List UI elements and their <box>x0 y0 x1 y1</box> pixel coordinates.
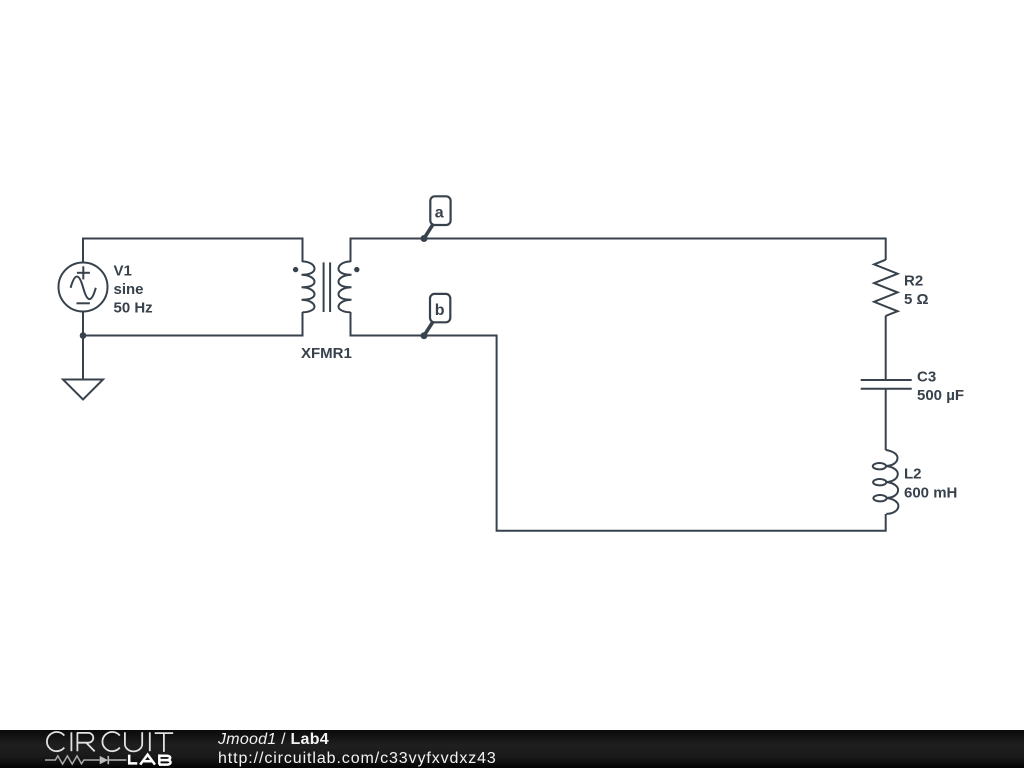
capacitor C3 <box>861 380 912 389</box>
svg-text:sine: sine <box>114 281 144 298</box>
svg-text:V1: V1 <box>114 263 132 280</box>
CircuitLab logo <box>0 730 200 768</box>
logo diode <box>100 756 108 764</box>
svg-text:L2: L2 <box>904 466 922 483</box>
svg-text:5 Ω: 5 Ω <box>904 291 929 308</box>
voltage source V1 <box>59 263 108 312</box>
wire C3 to L2 <box>885 389 887 450</box>
ground <box>63 380 103 400</box>
wire ground stub <box>82 336 84 380</box>
logo LAB text <box>129 754 170 764</box>
logo letter C <box>102 732 119 751</box>
svg-text:C3: C3 <box>917 369 936 386</box>
logo letter I <box>149 732 151 751</box>
svg-text:R2: R2 <box>904 273 923 290</box>
XFMR1 polarity dot right <box>354 267 359 272</box>
svg-text:b: b <box>435 302 445 319</box>
label V1 value <box>114 263 153 317</box>
wire primary bottom run <box>83 312 303 336</box>
wire R2 to C3 <box>885 316 887 380</box>
logo letter C <box>47 732 64 751</box>
inductor L2 <box>873 450 899 514</box>
footer bar <box>0 730 1024 768</box>
svg-text:500 µF: 500 µF <box>917 387 964 404</box>
wire primary top run <box>83 239 303 264</box>
svg-text:600 mH: 600 mH <box>904 485 957 502</box>
label L2 value <box>904 466 957 502</box>
svg-text:a: a <box>435 205 444 222</box>
junction dot at V1/ground <box>80 332 87 339</box>
XFMR1 polarity dot left <box>293 267 298 272</box>
svg-text:50 Hz: 50 Hz <box>114 300 153 317</box>
wire secondary top run <box>351 239 886 263</box>
footer title text <box>218 731 329 749</box>
label C3 value <box>917 369 964 405</box>
logo resistor <box>45 756 100 764</box>
label R2 value <box>904 273 929 309</box>
logo letter I <box>70 732 72 751</box>
logo letter U <box>125 732 142 751</box>
terminal b <box>421 294 451 339</box>
resistor R2 <box>874 260 898 316</box>
logo letter T <box>155 733 174 752</box>
logo letter R <box>77 733 95 752</box>
footer url text <box>218 750 497 768</box>
wire V1 bottom lead <box>82 312 84 336</box>
terminal a <box>421 196 451 242</box>
transformer XFMR1 <box>302 262 352 313</box>
svg-text:XFMR1: XFMR1 <box>301 345 352 362</box>
wire secondary bottom run <box>351 312 886 531</box>
